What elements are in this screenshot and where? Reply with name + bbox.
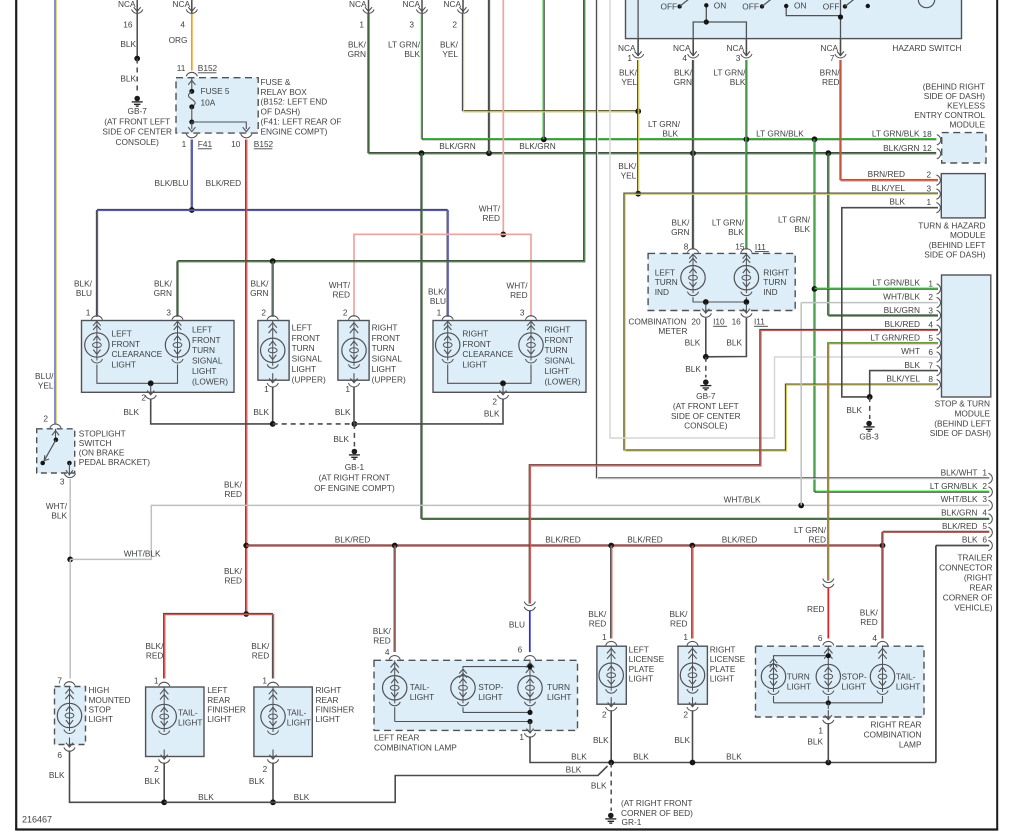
svg-text:7: 7 xyxy=(928,360,933,370)
svg-text:STOP-: STOP- xyxy=(842,672,867,682)
svg-text:BLK: BLK xyxy=(249,776,265,786)
svg-text:RIGHT REAR: RIGHT REAR xyxy=(870,720,921,730)
svg-text:BLU: BLU xyxy=(509,620,525,630)
svg-text:HIGH: HIGH xyxy=(89,685,110,695)
svg-text:BLK: BLK xyxy=(633,751,649,761)
svg-text:BLK: BLK xyxy=(674,735,690,745)
svg-text:BLK/: BLK/ xyxy=(588,609,607,619)
svg-text:FRONT: FRONT xyxy=(292,333,321,343)
svg-text:1: 1 xyxy=(926,197,931,207)
svg-text:6: 6 xyxy=(982,535,987,545)
svg-text:FINISHER: FINISHER xyxy=(207,704,246,714)
svg-text:RIGHT: RIGHT xyxy=(316,685,342,695)
svg-text:HAZARD SWITCH: HAZARD SWITCH xyxy=(892,43,961,53)
svg-text:LIGHT: LIGHT xyxy=(287,717,311,727)
svg-text:5: 5 xyxy=(982,521,987,531)
svg-text:RED: RED xyxy=(808,535,826,545)
svg-text:BLK/: BLK/ xyxy=(440,39,459,49)
svg-text:NCA: NCA xyxy=(443,0,461,9)
svg-text:BLK: BLK xyxy=(726,337,742,347)
svg-text:BLK: BLK xyxy=(571,751,587,761)
svg-text:RIGHT: RIGHT xyxy=(763,267,789,277)
svg-text:10A: 10A xyxy=(201,98,216,108)
svg-text:ENTRY CONTROL: ENTRY CONTROL xyxy=(914,110,985,120)
svg-text:STOP: STOP xyxy=(89,704,112,714)
svg-text:8: 8 xyxy=(928,374,933,384)
svg-text:SIDE OF DASH): SIDE OF DASH) xyxy=(924,91,986,101)
svg-text:WHT: WHT xyxy=(901,346,920,356)
svg-text:LIGHT: LIGHT xyxy=(410,692,434,702)
svg-text:COMBINATION LAMP: COMBINATION LAMP xyxy=(374,743,457,753)
svg-text:TURN: TURN xyxy=(192,345,215,355)
svg-text:FRONT: FRONT xyxy=(372,333,401,343)
svg-text:LIGHT: LIGHT xyxy=(292,364,316,374)
svg-text:LIGHT: LIGHT xyxy=(372,364,396,374)
svg-text:BLK: BLK xyxy=(962,535,978,545)
svg-text:LICENSE: LICENSE xyxy=(710,654,746,664)
svg-text:BLK/YEL: BLK/YEL xyxy=(871,183,905,193)
svg-text:YEL: YEL xyxy=(621,77,637,87)
svg-text:BLK/GRN: BLK/GRN xyxy=(941,508,977,518)
svg-text:6: 6 xyxy=(518,645,523,655)
svg-text:1: 1 xyxy=(345,384,350,394)
svg-text:RED: RED xyxy=(224,489,242,499)
svg-text:2: 2 xyxy=(343,308,348,318)
svg-text:BLK/: BLK/ xyxy=(251,641,270,651)
svg-text:ON: ON xyxy=(794,0,806,10)
svg-text:BLK/RED: BLK/RED xyxy=(335,535,371,545)
svg-text:18: 18 xyxy=(922,129,932,139)
svg-text:GR-1: GR-1 xyxy=(622,817,642,827)
svg-text:CONSOLE): CONSOLE) xyxy=(684,421,728,431)
svg-text:RELAY BOX: RELAY BOX xyxy=(261,87,308,97)
svg-text:RED: RED xyxy=(822,77,840,87)
svg-text:LIGHT: LIGHT xyxy=(842,681,866,691)
svg-text:2: 2 xyxy=(683,710,688,720)
svg-text:GRN: GRN xyxy=(674,77,692,87)
svg-text:BLK/: BLK/ xyxy=(224,566,243,576)
svg-text:BLK/GRN: BLK/GRN xyxy=(519,141,555,151)
svg-text:(BEHIND LEFT: (BEHIND LEFT xyxy=(929,240,986,250)
svg-text:KEYLESS: KEYLESS xyxy=(947,101,985,111)
svg-text:COMBINATION: COMBINATION xyxy=(864,730,922,740)
svg-text:NCA: NCA xyxy=(402,0,420,9)
svg-text:1: 1 xyxy=(182,139,187,149)
svg-text:1: 1 xyxy=(627,53,632,63)
svg-text:3: 3 xyxy=(409,19,414,29)
svg-text:NCA: NCA xyxy=(349,0,367,9)
svg-text:7: 7 xyxy=(830,53,835,63)
svg-text:2: 2 xyxy=(926,170,931,180)
svg-text:(RIGHT: (RIGHT xyxy=(964,573,993,583)
svg-text:RED: RED xyxy=(670,619,688,629)
svg-text:4: 4 xyxy=(982,508,987,518)
svg-text:TURN: TURN xyxy=(787,672,810,682)
svg-text:BLK/: BLK/ xyxy=(251,278,270,288)
svg-text:TURN: TURN xyxy=(292,343,315,353)
svg-text:3: 3 xyxy=(926,183,931,193)
svg-text:I10: I10 xyxy=(713,317,725,327)
svg-text:GRN: GRN xyxy=(671,227,689,237)
svg-text:1: 1 xyxy=(519,732,524,742)
svg-text:(AT FRONT LEFT: (AT FRONT LEFT xyxy=(673,401,739,411)
svg-text:FUSE &: FUSE & xyxy=(261,77,291,87)
svg-text:2: 2 xyxy=(492,397,497,407)
svg-text:BLK/RED: BLK/RED xyxy=(545,535,581,545)
svg-text:STOP & TURN: STOP & TURN xyxy=(935,399,990,409)
svg-text:TURN: TURN xyxy=(547,682,570,692)
svg-text:CORNER OF: CORNER OF xyxy=(943,593,993,603)
svg-text:BLK: BLK xyxy=(726,751,742,761)
svg-text:REAR: REAR xyxy=(316,695,339,705)
svg-text:TURN: TURN xyxy=(372,343,395,353)
svg-text:METER: METER xyxy=(658,326,687,336)
svg-text:TAIL-: TAIL- xyxy=(287,707,307,717)
svg-text:(AT RIGHT FRONT: (AT RIGHT FRONT xyxy=(319,472,390,482)
svg-text:LIGHT: LIGHT xyxy=(316,714,340,724)
svg-text:BLK/: BLK/ xyxy=(348,39,367,49)
svg-text:BLK: BLK xyxy=(685,337,701,347)
svg-text:NCA: NCA xyxy=(673,43,691,53)
svg-text:(UPPER): (UPPER) xyxy=(372,374,406,384)
svg-text:BLK: BLK xyxy=(51,511,67,521)
svg-text:LAMP: LAMP xyxy=(899,740,922,750)
svg-text:1: 1 xyxy=(982,467,987,477)
svg-text:2: 2 xyxy=(154,764,159,774)
svg-text:LT GRN/BLK: LT GRN/BLK xyxy=(756,128,804,138)
svg-text:1: 1 xyxy=(264,384,269,394)
svg-text:LEFT: LEFT xyxy=(112,328,132,338)
svg-text:RED: RED xyxy=(146,651,164,661)
svg-text:FRONT: FRONT xyxy=(112,339,141,349)
svg-text:BLK: BLK xyxy=(685,364,701,374)
svg-text:B152: B152 xyxy=(254,139,274,149)
svg-text:REAR: REAR xyxy=(969,583,992,593)
svg-text:TURN: TURN xyxy=(655,277,678,287)
svg-text:BLK/: BLK/ xyxy=(619,68,638,78)
svg-text:BLK/BLU: BLK/BLU xyxy=(155,178,189,188)
svg-text:BLK: BLK xyxy=(120,74,136,84)
svg-text:BLK/: BLK/ xyxy=(674,68,693,78)
svg-text:TAIL-: TAIL- xyxy=(896,672,916,682)
svg-text:GB-7: GB-7 xyxy=(128,106,148,116)
svg-text:BLK/GRN: BLK/GRN xyxy=(439,141,475,151)
svg-text:1: 1 xyxy=(359,19,364,29)
svg-text:3: 3 xyxy=(982,494,987,504)
svg-text:RED: RED xyxy=(224,576,242,586)
svg-text:RED: RED xyxy=(482,213,500,223)
svg-text:FINISHER: FINISHER xyxy=(316,704,355,714)
svg-text:SWITCH: SWITCH xyxy=(79,438,112,448)
svg-text:OF DASH): OF DASH) xyxy=(261,106,301,116)
svg-text:(LOWER): (LOWER) xyxy=(192,376,228,386)
svg-text:LEFT: LEFT xyxy=(192,324,212,334)
svg-text:LT GRN/BLK: LT GRN/BLK xyxy=(930,481,978,491)
svg-text:4: 4 xyxy=(928,319,933,329)
svg-text:CONSOLE): CONSOLE) xyxy=(116,137,160,147)
svg-text:BLK: BLK xyxy=(730,77,746,87)
svg-text:LT GRN/: LT GRN/ xyxy=(778,215,811,225)
svg-text:(AT FRONT LEFT: (AT FRONT LEFT xyxy=(104,116,170,126)
svg-text:SIGNAL: SIGNAL xyxy=(545,356,576,366)
svg-text:BLK/: BLK/ xyxy=(428,287,447,297)
svg-text:BLK: BLK xyxy=(120,39,136,49)
svg-text:2: 2 xyxy=(141,392,146,402)
svg-text:BLU: BLU xyxy=(430,296,446,306)
svg-text:2: 2 xyxy=(602,710,607,720)
svg-text:SIDE OF DASH): SIDE OF DASH) xyxy=(930,428,992,438)
svg-text:BLK: BLK xyxy=(123,407,139,417)
svg-text:BLK: BLK xyxy=(904,360,920,370)
svg-text:2: 2 xyxy=(43,414,48,424)
svg-text:BLK/: BLK/ xyxy=(224,480,243,490)
svg-text:REAR: REAR xyxy=(207,695,230,705)
svg-text:LEFT: LEFT xyxy=(655,267,675,277)
svg-text:BLK/: BLK/ xyxy=(154,278,173,288)
svg-text:3: 3 xyxy=(928,306,933,316)
svg-text:SIGNAL: SIGNAL xyxy=(292,354,323,364)
svg-text:MOUNTED: MOUNTED xyxy=(89,695,131,705)
svg-text:BLK: BLK xyxy=(662,129,678,139)
svg-text:RIGHT: RIGHT xyxy=(462,328,488,338)
svg-text:BLK/GRN: BLK/GRN xyxy=(883,143,919,153)
svg-text:LIGHT: LIGHT xyxy=(112,360,136,370)
svg-text:TURN & HAZARD: TURN & HAZARD xyxy=(918,221,985,231)
svg-text:4: 4 xyxy=(180,19,185,29)
svg-text:YEL: YEL xyxy=(621,171,637,181)
svg-text:(B152: LEFT END: (B152: LEFT END xyxy=(261,97,328,107)
svg-text:WHT/: WHT/ xyxy=(329,280,351,290)
svg-text:BLK: BLK xyxy=(728,227,744,237)
svg-text:LIGHT: LIGHT xyxy=(896,681,920,691)
svg-text:SIDE OF DASH): SIDE OF DASH) xyxy=(924,249,986,259)
svg-text:BLK/RED: BLK/RED xyxy=(884,319,920,329)
svg-text:LEFT: LEFT xyxy=(292,322,312,332)
svg-text:RED: RED xyxy=(807,604,825,614)
svg-text:RIGHT: RIGHT xyxy=(710,645,736,655)
svg-text:8: 8 xyxy=(684,242,689,252)
svg-text:4: 4 xyxy=(682,53,687,63)
svg-text:12: 12 xyxy=(922,143,932,153)
svg-text:BLK: BLK xyxy=(846,405,862,415)
svg-text:BLK: BLK xyxy=(335,407,351,417)
svg-text:6: 6 xyxy=(818,633,823,643)
svg-text:1: 1 xyxy=(928,278,933,288)
svg-text:WHT/BLK: WHT/BLK xyxy=(941,494,978,504)
svg-text:BLK/YEL: BLK/YEL xyxy=(886,374,920,384)
svg-text:LEFT: LEFT xyxy=(207,685,227,695)
svg-text:BLK: BLK xyxy=(593,735,609,745)
svg-text:(ON BRAKE: (ON BRAKE xyxy=(79,447,125,457)
svg-text:LICENSE: LICENSE xyxy=(629,654,665,664)
svg-text:7: 7 xyxy=(57,676,62,686)
svg-text:LT GRN/BLK: LT GRN/BLK xyxy=(872,129,920,139)
svg-text:BLK/RED: BLK/RED xyxy=(627,535,663,545)
svg-text:1: 1 xyxy=(818,726,823,736)
svg-text:BLK/: BLK/ xyxy=(860,608,879,618)
svg-text:I11: I11 xyxy=(754,317,765,327)
svg-text:5: 5 xyxy=(928,333,933,343)
svg-text:CLEARANCE: CLEARANCE xyxy=(462,349,513,359)
svg-text:LEFT REAR: LEFT REAR xyxy=(374,732,420,742)
svg-text:BLK/: BLK/ xyxy=(373,626,392,636)
svg-text:ORG: ORG xyxy=(169,35,188,45)
svg-text:BLK: BLK xyxy=(404,49,420,59)
svg-text:NCA: NCA xyxy=(820,43,838,53)
svg-text:11: 11 xyxy=(177,63,186,73)
svg-text:1: 1 xyxy=(437,308,442,318)
svg-text:GRN: GRN xyxy=(250,288,268,298)
svg-text:BLK/: BLK/ xyxy=(74,278,93,288)
svg-text:(LOWER): (LOWER) xyxy=(545,376,581,386)
svg-text:FRONT: FRONT xyxy=(462,339,491,349)
svg-text:4: 4 xyxy=(385,647,390,657)
svg-text:ON: ON xyxy=(714,0,726,10)
svg-text:YEL: YEL xyxy=(38,380,54,390)
svg-text:FRONT: FRONT xyxy=(192,335,221,345)
svg-text:6: 6 xyxy=(57,750,62,760)
svg-text:CONNECTOR: CONNECTOR xyxy=(939,563,992,573)
svg-text:BRN/: BRN/ xyxy=(820,68,841,78)
svg-text:BLK/: BLK/ xyxy=(145,641,164,651)
svg-text:RED: RED xyxy=(510,290,528,300)
svg-text:TAIL-: TAIL- xyxy=(178,707,198,717)
svg-text:BLK: BLK xyxy=(807,737,823,747)
svg-text:3: 3 xyxy=(166,308,171,318)
svg-text:LIGHT: LIGHT xyxy=(192,366,216,376)
svg-text:I11: I11 xyxy=(755,242,766,252)
svg-text:LIGHT: LIGHT xyxy=(545,366,569,376)
svg-text:2: 2 xyxy=(928,292,933,302)
svg-text:WHT/: WHT/ xyxy=(506,281,528,291)
svg-text:WHT/BLK: WHT/BLK xyxy=(883,291,920,301)
svg-text:LIGHT: LIGHT xyxy=(629,674,653,684)
svg-text:1: 1 xyxy=(154,676,159,686)
svg-text:STOP-: STOP- xyxy=(478,682,503,692)
svg-text:16: 16 xyxy=(123,19,133,29)
svg-text:2: 2 xyxy=(261,308,266,318)
svg-text:OFF: OFF xyxy=(661,1,678,11)
svg-text:GB-1: GB-1 xyxy=(345,462,365,472)
svg-text:MODULE: MODULE xyxy=(950,120,986,130)
svg-text:3: 3 xyxy=(520,308,525,318)
svg-text:20: 20 xyxy=(691,317,701,327)
svg-text:BLK/: BLK/ xyxy=(672,217,691,227)
svg-text:4: 4 xyxy=(872,633,877,643)
svg-text:TURN: TURN xyxy=(545,345,568,355)
svg-text:BLK/RED: BLK/RED xyxy=(206,178,242,188)
svg-text:RED: RED xyxy=(373,636,391,646)
svg-text:LIGHT: LIGHT xyxy=(207,714,231,724)
svg-text:ENGINE COMPT): ENGINE COMPT) xyxy=(261,126,328,136)
svg-text:SIDE OF CENTER: SIDE OF CENTER xyxy=(671,411,741,421)
svg-text:SIGNAL: SIGNAL xyxy=(372,354,403,364)
svg-text:OFF: OFF xyxy=(742,1,759,11)
svg-text:RIGHT: RIGHT xyxy=(545,324,571,334)
svg-text:MODULE: MODULE xyxy=(955,408,991,418)
svg-text:LIGHT: LIGHT xyxy=(478,692,502,702)
svg-text:MODULE: MODULE xyxy=(950,230,986,240)
svg-text:16: 16 xyxy=(732,317,742,327)
svg-text:1: 1 xyxy=(86,308,91,318)
svg-text:YEL: YEL xyxy=(442,49,458,59)
svg-text:BLK: BLK xyxy=(294,792,310,802)
svg-text:COMBINATION: COMBINATION xyxy=(628,317,686,327)
svg-text:BLU: BLU xyxy=(76,288,92,298)
svg-text:216467: 216467 xyxy=(22,815,52,825)
svg-text:LIGHT: LIGHT xyxy=(547,692,571,702)
svg-text:PLATE: PLATE xyxy=(710,664,736,674)
svg-text:RED: RED xyxy=(860,617,878,627)
svg-text:BLK: BLK xyxy=(566,764,582,774)
svg-text:STOPLIGHT: STOPLIGHT xyxy=(79,428,126,438)
svg-text:VEHICLE): VEHICLE) xyxy=(954,603,993,613)
svg-text:BLU/: BLU/ xyxy=(35,371,54,381)
svg-text:BLK: BLK xyxy=(253,407,269,417)
svg-text:WHT/BLK: WHT/BLK xyxy=(724,494,761,504)
svg-text:NCA: NCA xyxy=(118,0,136,9)
svg-text:PEDAL BRACKET): PEDAL BRACKET) xyxy=(79,457,150,467)
svg-text:(F41: LEFT REAR OF: (F41: LEFT REAR OF xyxy=(261,117,342,127)
svg-text:2: 2 xyxy=(982,481,987,491)
svg-text:2: 2 xyxy=(263,764,268,774)
svg-text:LT GRN/: LT GRN/ xyxy=(388,39,421,49)
svg-text:BLK: BLK xyxy=(591,781,607,791)
svg-text:LIGHT: LIGHT xyxy=(89,714,113,724)
svg-text:(AT RIGHT FRONT: (AT RIGHT FRONT xyxy=(621,798,692,808)
svg-text:TAIL-: TAIL- xyxy=(410,682,430,692)
svg-text:BLK/: BLK/ xyxy=(670,609,689,619)
svg-text:WHT/: WHT/ xyxy=(479,203,501,213)
svg-text:BLK/GRN: BLK/GRN xyxy=(884,305,920,315)
svg-text:BLK: BLK xyxy=(144,776,160,786)
svg-text:BLK: BLK xyxy=(198,792,214,802)
svg-text:LIGHT: LIGHT xyxy=(178,717,202,727)
svg-text:3: 3 xyxy=(736,53,741,63)
svg-text:BLK: BLK xyxy=(484,409,500,419)
svg-text:FUSE 5: FUSE 5 xyxy=(201,86,230,96)
svg-text:3: 3 xyxy=(60,477,65,487)
svg-text:RIGHT: RIGHT xyxy=(372,322,398,332)
svg-text:10: 10 xyxy=(231,139,241,149)
svg-text:1: 1 xyxy=(262,676,267,686)
svg-text:6: 6 xyxy=(928,347,933,357)
svg-text:GRN: GRN xyxy=(348,49,366,59)
svg-text:2: 2 xyxy=(452,19,457,29)
svg-text:SIGNAL: SIGNAL xyxy=(192,356,223,366)
svg-text:GB-3: GB-3 xyxy=(859,431,879,441)
svg-text:LT GRN/RED: LT GRN/RED xyxy=(871,332,920,342)
svg-text:BLK: BLK xyxy=(333,434,349,444)
svg-text:(BEHIND RIGHT: (BEHIND RIGHT xyxy=(923,81,985,91)
svg-text:IND: IND xyxy=(655,287,669,297)
svg-text:TRAILER: TRAILER xyxy=(957,553,992,563)
svg-text:1: 1 xyxy=(602,632,607,642)
svg-text:LEFT: LEFT xyxy=(629,645,649,655)
svg-text:NCA: NCA xyxy=(726,43,744,53)
svg-text:OF ENGINE COMPT): OF ENGINE COMPT) xyxy=(314,483,395,493)
svg-text:BLK/: BLK/ xyxy=(618,161,637,171)
svg-text:BLK: BLK xyxy=(49,770,65,780)
svg-text:NCA: NCA xyxy=(618,43,636,53)
svg-text:LT GRN/: LT GRN/ xyxy=(713,68,746,78)
svg-text:LT GRN/BLK: LT GRN/BLK xyxy=(872,278,920,288)
svg-text:IND: IND xyxy=(763,287,777,297)
svg-text:1: 1 xyxy=(683,632,688,642)
svg-text:F41: F41 xyxy=(198,139,213,149)
svg-text:BLK: BLK xyxy=(794,224,810,234)
svg-text:RED: RED xyxy=(252,651,270,661)
